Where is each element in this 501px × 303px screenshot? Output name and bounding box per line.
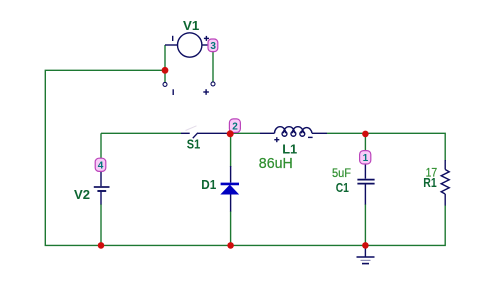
- svg-text:17: 17: [426, 168, 438, 180]
- svg-text:3: 3: [210, 41, 216, 52]
- svg-text:D1: D1: [201, 177, 216, 192]
- svg-text:5uF: 5uF: [332, 168, 351, 180]
- svg-text:L1: L1: [282, 141, 297, 156]
- svg-text:2: 2: [232, 121, 238, 132]
- svg-text:1: 1: [363, 153, 369, 164]
- svg-text:C1: C1: [336, 180, 349, 195]
- svg-text:S1: S1: [187, 137, 200, 152]
- svg-text:V1: V1: [183, 18, 199, 33]
- svg-text:V2: V2: [74, 187, 90, 202]
- svg-text:4: 4: [98, 161, 104, 172]
- svg-text:86uH: 86uH: [259, 156, 293, 172]
